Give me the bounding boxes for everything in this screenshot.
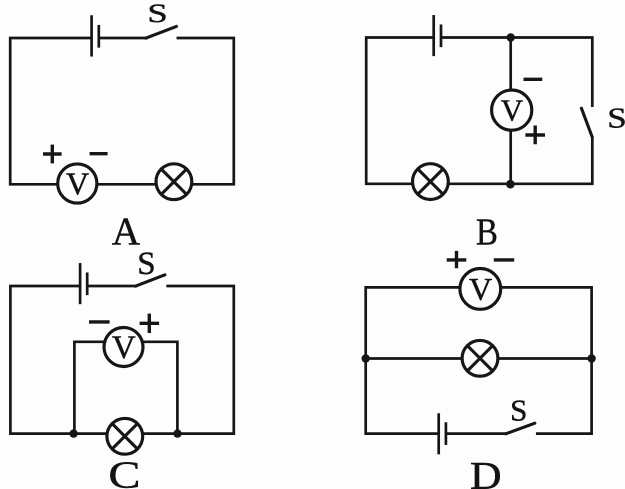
wire: C switch contact, top-right corner, right side, bottom to lamp xyxy=(142,286,233,434)
wire: A voltmeter to lamp xyxy=(98,183,156,186)
wire: D top rail right, right side, bottom rail to switch contact xyxy=(502,287,591,433)
svg-text:D: D xyxy=(470,454,502,489)
battery (B) long plate + xyxy=(432,16,435,54)
voltmeter V1 (A) xyxy=(58,164,97,203)
svg-text:V: V xyxy=(469,271,492,307)
minus sign (D voltmeter) xyxy=(496,258,513,261)
wire: C battery right plate to switch pivot xyxy=(89,285,135,288)
voltmeter V3 (C) xyxy=(104,328,143,367)
battery (C) long plate + xyxy=(79,264,82,302)
wire: D top rail left, left side, bottom rail to battery xyxy=(366,287,459,433)
lamp L1 (A) xyxy=(156,164,192,200)
svg-text:V: V xyxy=(501,93,524,128)
wire: D middle rail left xyxy=(366,357,462,360)
minus sign (B voltmeter) xyxy=(525,78,540,81)
battery (A) long plate + xyxy=(90,17,93,56)
switch S blade (D) xyxy=(506,423,535,434)
wire: B battery right across top (through node) to top-right corner, down to switch xyxy=(443,38,592,106)
battery (D) short plate - xyxy=(445,424,448,444)
switch S blade (B) xyxy=(581,108,592,137)
wire: D battery right plate to switch pivot xyxy=(448,432,506,435)
wire: A battery left to top-left corner, left side, bottom-left to voltmeter xyxy=(10,38,90,184)
switch S blade (A) xyxy=(146,26,177,38)
plus sign (C voltmeter) xyxy=(141,315,157,331)
battery (D) long plate + xyxy=(437,415,440,453)
node dot right (D) xyxy=(587,354,595,362)
lamp L2 (B) xyxy=(413,164,449,200)
voltmeter V2 (B) xyxy=(492,90,532,130)
wire: C battery left to top-left corner, left side, bottom to lamp xyxy=(10,286,107,434)
wire: B switch lower contact down to bottom-right corner, bottom to lamp xyxy=(448,138,592,184)
minus sign (C voltmeter) xyxy=(91,320,108,323)
node dot right (C) xyxy=(173,429,181,437)
voltmeter V4 (D) xyxy=(460,269,501,310)
svg-text:S: S xyxy=(147,0,167,28)
wire: B middle branch lower (voltmeter to bottom node) xyxy=(509,132,512,184)
svg-text:A: A xyxy=(112,210,140,253)
plus sign (D voltmeter) xyxy=(448,253,464,267)
svg-text:V: V xyxy=(112,330,136,366)
svg-text:S: S xyxy=(137,246,155,282)
minus sign (A voltmeter) xyxy=(91,152,106,155)
switch S blade (C) xyxy=(135,275,165,286)
wire: A switch contact, top-right corner, right side, bottom-right to lamp xyxy=(178,38,234,184)
node dot top (B) xyxy=(507,33,515,41)
wire: D middle rail right xyxy=(499,357,592,360)
wire: C voltmeter branch left (horizontal + left vertical) xyxy=(74,342,105,434)
svg-text:B: B xyxy=(476,210,498,253)
node dot bottom (B) xyxy=(506,180,515,189)
battery (A) short plate - xyxy=(97,26,100,46)
battery (C) short plate - xyxy=(86,274,89,294)
lamp L3 (C) xyxy=(107,418,143,454)
wire: B middle branch upper (node to voltmeter) xyxy=(509,38,512,89)
svg-text:C: C xyxy=(108,454,140,489)
battery (B) short plate - xyxy=(440,26,443,46)
svg-text:S: S xyxy=(510,393,527,428)
plus sign (B voltmeter) xyxy=(527,127,543,142)
lamp L4 (D) xyxy=(462,340,498,376)
wire: B battery left to top-left corner, left side, bottom to lamp xyxy=(366,38,432,184)
plus sign (A voltmeter) xyxy=(45,146,60,161)
svg-text:S: S xyxy=(607,103,625,134)
node dot left (C) xyxy=(69,429,77,437)
wire: A battery right plate to switch pivot xyxy=(101,37,146,40)
svg-text:V: V xyxy=(66,165,89,201)
wire: C voltmeter branch right (horizontal + right vertical) xyxy=(142,342,177,434)
node dot left (D) xyxy=(362,354,370,362)
